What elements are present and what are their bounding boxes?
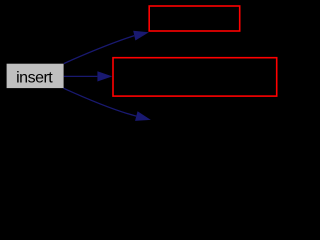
- svg-text:insert: insert: [16, 69, 53, 86]
